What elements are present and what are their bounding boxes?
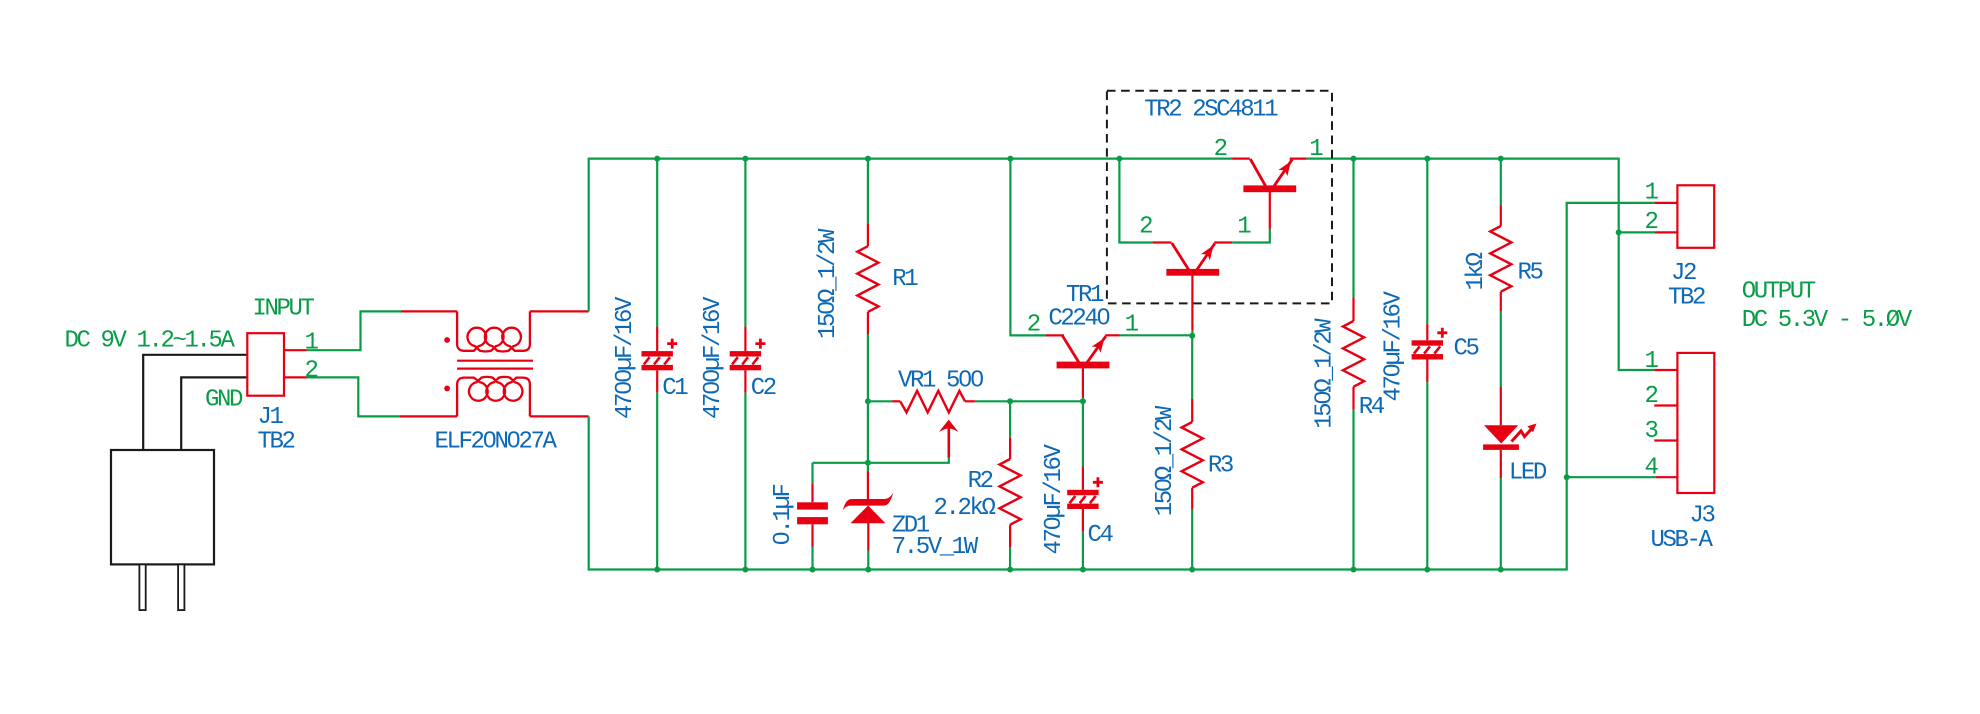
capacitor 0.1uF plate top bbox=[797, 502, 828, 509]
svg-text:4700µF/16V: 4700µF/16V bbox=[700, 296, 727, 419]
svg-text:J2: J2 bbox=[1671, 260, 1696, 287]
TR2a collector wire down to R3 node bbox=[1191, 276, 1193, 331]
resistor R3 bbox=[1191, 399, 1193, 422]
resistor R1 bbox=[867, 223, 869, 246]
node J2 pin2 junction bbox=[1616, 229, 1622, 235]
value 150ohm_1/2W (R4) bbox=[1311, 318, 1338, 429]
capacitor 0.1uF branch upper bbox=[811, 463, 813, 484]
node TR1 emitter/R3 junction bbox=[1189, 333, 1195, 339]
node TR1 collector/C4 junction bbox=[1080, 398, 1086, 404]
svg-text:C4: C4 bbox=[1088, 522, 1114, 549]
filter secondary winding bbox=[457, 377, 530, 416]
zener ZD1 branch upper (red) bbox=[867, 472, 869, 506]
wire TR1 emitter to R3 node bbox=[1120, 334, 1193, 336]
value 470uF/16V (C5) bbox=[1381, 290, 1408, 401]
VR1 wiper arrow stem bbox=[947, 428, 950, 458]
bottom rail and right ground riser to J2 pin1 bbox=[589, 203, 1655, 570]
junction bottom rail bbox=[1424, 567, 1430, 573]
node top rail TR2 branch bbox=[1116, 156, 1122, 162]
dashed box TR2 bbox=[1107, 91, 1332, 304]
resistor R3 branch lower bbox=[1191, 510, 1193, 570]
wire J1 pin1 to filter (green) bbox=[307, 311, 401, 350]
svg-text:4700µF/16V: 4700µF/16V bbox=[612, 296, 639, 419]
svg-text:2: 2 bbox=[1139, 213, 1152, 240]
LED triangle bbox=[1484, 425, 1518, 443]
svg-text:150Ω_1/2W: 150Ω_1/2W bbox=[815, 228, 842, 339]
svg-text:ELF20N027A: ELF20N027A bbox=[435, 429, 558, 456]
resistor R2 branch upper bbox=[1009, 401, 1011, 438]
svg-text:1kΩ: 1kΩ bbox=[1463, 252, 1490, 290]
LED anode stub (red) bbox=[1500, 387, 1502, 425]
resistor R3 branch upper bbox=[1191, 336, 1193, 399]
svg-text:C5: C5 bbox=[1454, 336, 1479, 363]
capacitor C2 branch wire upper bbox=[744, 159, 746, 327]
svg-text:1: 1 bbox=[1309, 136, 1323, 163]
wire into filter top (red) bbox=[401, 310, 457, 312]
capacitor C4 branch lower bbox=[1082, 509, 1084, 531]
svg-text:VR1 500: VR1 500 bbox=[898, 368, 983, 395]
svg-text:2: 2 bbox=[1214, 136, 1227, 163]
TR1 base stub (red) bbox=[1045, 334, 1064, 336]
svg-text:C1: C1 bbox=[662, 375, 688, 402]
svg-text:R5: R5 bbox=[1518, 260, 1543, 287]
filter core line lower bbox=[457, 368, 533, 370]
junction top rail bbox=[742, 156, 748, 162]
capacitor C5 branch lower bbox=[1426, 360, 1428, 383]
filter primary winding bbox=[457, 311, 530, 351]
svg-text:2.2kΩ: 2.2kΩ bbox=[934, 495, 996, 522]
svg-text:R3: R3 bbox=[1208, 453, 1233, 480]
transistor TR2b (upper) bbox=[1243, 185, 1296, 192]
capacitor C2 branch wire lower bbox=[744, 370, 746, 392]
svg-text:GND: GND bbox=[205, 387, 243, 414]
J2 pin 2 wire bbox=[1619, 231, 1655, 233]
svg-text:7.5V_1W: 7.5V_1W bbox=[892, 534, 979, 561]
svg-text:USB-A: USB-A bbox=[1651, 527, 1714, 554]
svg-text:2: 2 bbox=[1645, 383, 1658, 410]
svg-text:2: 2 bbox=[305, 357, 318, 384]
capacitor C5 branch upper bbox=[1426, 159, 1428, 325]
node J3 pin4 junction bbox=[1564, 474, 1570, 480]
zener ZD1 branch lower bbox=[867, 522, 869, 550]
junction top rail bbox=[1007, 156, 1013, 162]
resistor R1 branch wire upper bbox=[867, 159, 869, 224]
svg-text:INPUT: INPUT bbox=[253, 296, 315, 323]
zener ZD1 cathode bar bbox=[843, 493, 894, 511]
zener ZD1 anode triangle bbox=[851, 506, 886, 524]
phase dot primary bbox=[444, 337, 450, 343]
svg-text:C2: C2 bbox=[751, 375, 776, 402]
value 1kohm bbox=[1463, 252, 1490, 290]
J3 pin 4 wire bbox=[1567, 476, 1656, 478]
junction top rail bbox=[1498, 156, 1504, 162]
TR2a base stub (red) bbox=[1153, 241, 1172, 243]
junction top rail bbox=[1424, 156, 1430, 162]
top rail right to J3 pin1 corner bbox=[1307, 159, 1655, 370]
svg-text:470µF/16V: 470µF/16V bbox=[1041, 443, 1068, 554]
svg-text:1: 1 bbox=[305, 329, 319, 356]
svg-text:DC 5.3V - 5.ØV: DC 5.3V - 5.ØV bbox=[1742, 307, 1913, 334]
LED emission arrow bbox=[1512, 430, 1532, 442]
value 4700uF/16V (C2) bbox=[700, 296, 727, 419]
resistor R2 bbox=[1009, 438, 1011, 459]
svg-text:LED: LED bbox=[1509, 459, 1547, 486]
svg-text:TR2 2SC4811: TR2 2SC4811 bbox=[1144, 97, 1278, 124]
node R1/VR1 junction bbox=[865, 398, 871, 404]
J3 pin 1 stub (red) bbox=[1654, 369, 1677, 371]
LED cathode bar bbox=[1483, 444, 1519, 450]
wire VR1 right stub (red) bbox=[965, 400, 975, 402]
J3 pin 2 stub (red) bbox=[1654, 404, 1677, 406]
wire filter top out (red) bbox=[530, 310, 589, 312]
wire R1 bottom to ZD1 node bbox=[867, 334, 869, 471]
resistor R5 bbox=[1500, 205, 1502, 226]
svg-text:150Ω_1/2W: 150Ω_1/2W bbox=[1311, 318, 1338, 429]
TR1 collector stub (red) bbox=[1082, 368, 1084, 397]
value 150ohm_1/2W (R3) bbox=[1152, 405, 1179, 516]
svg-text:DC 9V 1.2~1.5A: DC 9V 1.2~1.5A bbox=[65, 328, 236, 355]
capacitor C5 bbox=[1412, 340, 1443, 345]
svg-text:C2240: C2240 bbox=[1048, 305, 1109, 332]
capacitor C1 bbox=[642, 351, 673, 356]
junction bottom rail bbox=[1351, 567, 1357, 573]
svg-text:150Ω_1/2W: 150Ω_1/2W bbox=[1152, 405, 1179, 516]
value 150ohm_1/2W (R1) bbox=[815, 228, 842, 339]
svg-text:R2: R2 bbox=[968, 468, 993, 495]
svg-text:4: 4 bbox=[1645, 455, 1659, 482]
LED cathode wire bbox=[1500, 450, 1502, 478]
junction bottom rail bbox=[742, 567, 748, 573]
svg-text:1: 1 bbox=[1237, 213, 1251, 240]
capacitor C1 branch wire lower bbox=[656, 370, 658, 392]
TR2a emitter stub (red) bbox=[1214, 241, 1232, 243]
svg-text:TB2: TB2 bbox=[1668, 285, 1705, 312]
svg-text:1: 1 bbox=[1125, 312, 1139, 339]
junction top rail bbox=[654, 156, 660, 162]
TR1 emitter stub (red) bbox=[1105, 334, 1119, 336]
junction bottom rail bbox=[1080, 567, 1086, 573]
VR1 wiper arrowhead bbox=[939, 420, 958, 432]
svg-text:2: 2 bbox=[1645, 209, 1658, 236]
junction bottom rail bbox=[865, 567, 871, 573]
connector J2 body bbox=[1677, 185, 1714, 248]
svg-text:J3: J3 bbox=[1690, 503, 1715, 530]
junction bottom rail bbox=[1007, 567, 1013, 573]
resistor R4 branch lower bbox=[1352, 409, 1354, 570]
svg-text:TB2: TB2 bbox=[258, 429, 295, 456]
wire top rail to TR1 base bbox=[1010, 159, 1045, 336]
plug prong right bbox=[178, 564, 184, 610]
wire into filter bottom (red) bbox=[400, 415, 457, 417]
wire rail to TR2a base bbox=[1119, 159, 1152, 243]
wire plug to J1 pin1 (black) bbox=[143, 355, 247, 450]
transistor TR2a (lower) bbox=[1166, 269, 1219, 276]
TR2 emitter stub on rail (red) bbox=[1290, 158, 1307, 160]
node VR1/R2 junction bbox=[1007, 398, 1013, 404]
capacitor C1 branch wire upper bbox=[656, 159, 658, 327]
J3 pin 3 stub (red) bbox=[1654, 439, 1677, 441]
connector J1 body bbox=[247, 333, 284, 396]
top rail left with riser bbox=[589, 159, 1232, 312]
AC wall plug body bbox=[111, 450, 214, 564]
junction top rail bbox=[1351, 156, 1357, 162]
wire VR1 output to C4 node bbox=[975, 400, 1083, 402]
resistor R5 branch upper bbox=[1500, 159, 1502, 206]
junction bottom rail bbox=[1498, 567, 1504, 573]
potentiometer VR1 bbox=[900, 391, 965, 413]
filter core line upper bbox=[457, 360, 533, 362]
wire VR1 left stub (red) bbox=[892, 400, 900, 402]
resistor R4 bbox=[1352, 298, 1354, 321]
capacitor C4 bbox=[1067, 490, 1098, 495]
J1 pin 2 stub bbox=[284, 376, 307, 378]
TR2 base stub on rail (red) bbox=[1232, 158, 1250, 160]
svg-text:OUTPUT: OUTPUT bbox=[1742, 279, 1816, 306]
node ZD1/R1 junction bbox=[865, 460, 871, 466]
junction bottom rail bbox=[654, 567, 660, 573]
value 470uF/16V (C4) bbox=[1041, 443, 1068, 554]
svg-text:J1: J1 bbox=[258, 404, 284, 431]
value 4700uF/16V (C1) bbox=[612, 296, 639, 419]
capacitor C2 bbox=[730, 351, 761, 356]
svg-text:R1: R1 bbox=[892, 266, 918, 293]
resistor R2 branch lower bbox=[1009, 548, 1011, 570]
svg-text:1: 1 bbox=[1645, 179, 1659, 206]
J2 pin 1 stub (red) bbox=[1655, 202, 1678, 204]
TR2b collector stub (red) bbox=[1269, 192, 1271, 229]
plug prong left bbox=[139, 564, 145, 610]
svg-text:3: 3 bbox=[1645, 418, 1658, 445]
resistor R4 branch upper bbox=[1352, 159, 1354, 298]
svg-text:2: 2 bbox=[1027, 312, 1040, 339]
junction bottom rail bbox=[1189, 567, 1195, 573]
junction top rail bbox=[865, 156, 871, 162]
transistor TR1 bbox=[1057, 362, 1110, 369]
svg-text:470µF/16V: 470µF/16V bbox=[1381, 290, 1408, 401]
wire ZD1 node horizontal bbox=[813, 458, 949, 463]
wire R5 to LED bbox=[1500, 311, 1502, 387]
value 0.1uF bbox=[770, 484, 797, 545]
capacitor 0.1uF plate bottom bbox=[797, 517, 828, 524]
junction bottom rail bbox=[810, 567, 816, 573]
wire plug to J1 pin2 (black) bbox=[181, 377, 247, 450]
wire VR1 left (green) bbox=[868, 400, 892, 402]
phase dot secondary bbox=[444, 386, 450, 392]
wire J1 pin2 to filter (green) bbox=[307, 377, 400, 416]
capacitor C4 branch upper bbox=[1082, 401, 1084, 466]
wire filter bottom out (red) bbox=[530, 415, 589, 417]
connector J3 body bbox=[1677, 353, 1714, 493]
J1 pin 1 stub bbox=[284, 349, 307, 351]
wire TR2a emitter to TR2b collector bbox=[1232, 229, 1270, 243]
J3 pin 4 stub (red) bbox=[1656, 476, 1678, 478]
J2 pin 2 stub (red) bbox=[1655, 231, 1677, 233]
svg-text:1: 1 bbox=[1645, 348, 1659, 375]
capacitor 0.1uF branch lower bbox=[811, 524, 813, 546]
